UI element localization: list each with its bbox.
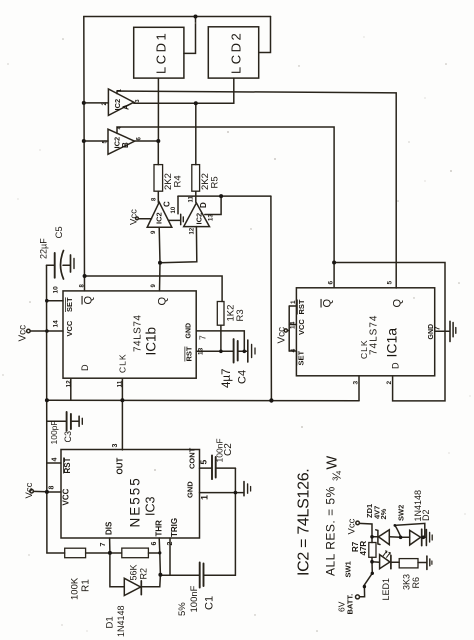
svg-text:4: 4 — [290, 349, 297, 353]
svg-text:LCD1: LCD1 — [154, 31, 169, 74]
svg-text:Q: Q — [322, 299, 334, 308]
svg-text:5: 5 — [199, 460, 209, 465]
svg-text:2: 2 — [167, 542, 174, 546]
svg-text:10: 10 — [53, 286, 60, 294]
svg-text:2: 2 — [386, 381, 393, 385]
svg-text:7: 7 — [433, 326, 442, 330]
svg-text:CLK: CLK — [359, 339, 369, 359]
svg-text:100K: 100K — [70, 577, 81, 600]
svg-text:Vcc: Vcc — [347, 518, 358, 534]
svg-text:R5: R5 — [210, 176, 221, 188]
svg-text:A: A — [122, 104, 131, 110]
svg-text:11: 11 — [189, 195, 195, 202]
svg-text:IC2: IC2 — [155, 212, 164, 224]
svg-text:2%: 2% — [379, 508, 388, 519]
svg-text:BATT.: BATT. — [346, 594, 355, 615]
svg-text:SET: SET — [297, 350, 306, 365]
svg-text:C: C — [163, 201, 172, 207]
svg-text:3: 3 — [135, 99, 141, 102]
svg-text:D2: D2 — [421, 509, 431, 521]
svg-text:DIS: DIS — [105, 521, 114, 535]
svg-text:C3: C3 — [63, 431, 73, 443]
svg-text:R3: R3 — [235, 309, 246, 321]
svg-text:ALL RES. = 5%: ALL RES. = 5% — [324, 486, 338, 576]
svg-text:8: 8 — [49, 486, 56, 490]
svg-text:13: 13 — [198, 347, 205, 355]
svg-text:5: 5 — [387, 281, 394, 285]
svg-text:LED1: LED1 — [381, 578, 391, 601]
svg-text:RST: RST — [185, 346, 194, 361]
svg-text:R6: R6 — [411, 577, 421, 589]
svg-text:SET: SET — [65, 297, 74, 312]
svg-text:VCC: VCC — [297, 319, 306, 335]
svg-text:100nF: 100nF — [189, 585, 200, 612]
svg-text:IC1b: IC1b — [144, 327, 159, 356]
svg-text:NE555: NE555 — [128, 476, 143, 527]
svg-text:R2: R2 — [139, 568, 149, 580]
svg-text:4: 4 — [52, 458, 59, 462]
svg-text:IC2 = 74LS126.: IC2 = 74LS126. — [296, 469, 313, 576]
svg-text:RST: RST — [63, 457, 72, 473]
svg-text:CLK: CLK — [118, 353, 128, 373]
svg-text:C4: C4 — [236, 370, 248, 384]
svg-text:C2: C2 — [223, 443, 234, 456]
svg-text:1: 1 — [200, 495, 210, 500]
svg-text:TRIG: TRIG — [170, 518, 179, 537]
svg-text:4µ7: 4µ7 — [221, 369, 233, 388]
svg-text:1: 1 — [117, 89, 123, 92]
svg-text:7: 7 — [198, 335, 208, 340]
svg-text:7: 7 — [100, 543, 107, 547]
svg-text:CONT: CONT — [188, 447, 197, 469]
svg-text:1: 1 — [290, 300, 297, 304]
svg-text:R4: R4 — [173, 175, 184, 187]
svg-text:R1: R1 — [81, 579, 92, 592]
svg-text:6: 6 — [151, 542, 158, 546]
svg-text:GND: GND — [428, 324, 435, 340]
svg-text:100pF: 100pF — [49, 420, 59, 444]
svg-text:LCD2: LCD2 — [229, 31, 244, 74]
svg-text:IC1a: IC1a — [384, 328, 400, 358]
svg-text:VCC: VCC — [62, 488, 71, 505]
svg-text:Vcc: Vcc — [18, 325, 29, 342]
svg-text:GND: GND — [186, 481, 195, 498]
svg-text:C1: C1 — [204, 596, 216, 610]
svg-text:IC3: IC3 — [144, 497, 158, 517]
svg-text:RST: RST — [297, 299, 306, 314]
svg-text:W: W — [325, 456, 341, 470]
svg-text:14: 14 — [290, 321, 297, 329]
svg-text:3K3: 3K3 — [402, 574, 412, 590]
svg-text:Vcc: Vcc — [24, 482, 35, 498]
svg-text:Vcc: Vcc — [129, 209, 140, 225]
svg-text:13: 13 — [209, 214, 215, 221]
svg-text:6: 6 — [328, 281, 335, 285]
svg-text:74LS74: 74LS74 — [369, 315, 380, 355]
svg-text:VCC: VCC — [65, 320, 74, 336]
svg-text:6V: 6V — [337, 601, 347, 612]
svg-text:47R: 47R — [359, 541, 368, 556]
svg-text:56K: 56K — [129, 564, 139, 580]
svg-text:Vcc: Vcc — [277, 327, 288, 344]
svg-text:¾: ¾ — [330, 470, 344, 481]
svg-text:D1: D1 — [105, 616, 116, 628]
svg-text:OUT: OUT — [116, 458, 125, 475]
svg-text:D: D — [391, 362, 401, 369]
svg-text:12: 12 — [66, 380, 73, 388]
svg-text:SW2: SW2 — [397, 505, 406, 521]
svg-text:B: B — [121, 142, 130, 148]
svg-text:D: D — [80, 364, 90, 371]
svg-text:10: 10 — [171, 206, 177, 213]
svg-text:14: 14 — [53, 320, 60, 328]
svg-text:C5: C5 — [54, 226, 65, 238]
svg-text:Q: Q — [83, 296, 95, 305]
svg-text:Q: Q — [392, 299, 404, 308]
svg-text:74LS74: 74LS74 — [133, 315, 144, 352]
svg-text:5%: 5% — [177, 602, 188, 616]
svg-text:3: 3 — [112, 444, 119, 448]
svg-text:D: D — [199, 202, 208, 208]
svg-text:22µF: 22µF — [39, 238, 49, 259]
svg-text:12: 12 — [190, 227, 196, 234]
svg-text:Q: Q — [157, 297, 169, 306]
svg-text:1N4148: 1N4148 — [116, 605, 126, 637]
svg-text:11: 11 — [117, 380, 124, 387]
svg-text:3: 3 — [353, 381, 360, 385]
svg-text:GND: GND — [186, 323, 193, 339]
svg-text:THR: THR — [155, 520, 164, 537]
svg-text:SW1: SW1 — [344, 561, 353, 577]
svg-text:IC2: IC2 — [195, 213, 204, 225]
